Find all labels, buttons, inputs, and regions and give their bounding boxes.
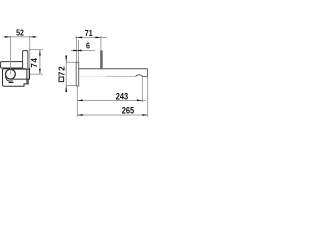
lever stem (side): [101, 50, 103, 68]
inner bore arc (crescent): [6, 76, 13, 81]
spout bottom edge (faint): [79, 75, 106, 77]
dim 52: [2, 36, 37, 74]
wall plate (side): [76, 62, 79, 86]
spout top edge + end: [79, 69, 148, 77]
dim 74 (vertical): [28, 50, 43, 74]
svg-text:243: 243: [116, 91, 128, 101]
dim 71: [75, 36, 107, 62]
square right edge over tube: [26, 69, 28, 84]
svg-text:72: 72: [58, 66, 67, 76]
aerator slot: [9, 82, 14, 83]
spout outlet circle: [5, 69, 15, 79]
spout tube (front view, horizontal cylinder): [10, 69, 29, 79]
dim square-72 (vertical): [66, 55, 76, 92]
lever stem (vertical, rounded top): [23, 51, 28, 69]
dim 6: [71, 40, 95, 62]
svg-text:52: 52: [16, 29, 24, 38]
svg-text:6: 6: [86, 42, 90, 51]
svg-text:74: 74: [30, 57, 39, 67]
svg-text:265: 265: [122, 106, 134, 116]
tube end cap / collar: [28, 68, 30, 80]
underside wave / aerator cove: [136, 75, 148, 77]
svg-text:71: 71: [85, 29, 93, 38]
lever arm (horizontal blade): [1, 62, 23, 68]
dim 243: [77, 77, 145, 117]
escutcheon square plate with stepped corner: [3, 69, 29, 86]
dim 265: [77, 77, 148, 117]
